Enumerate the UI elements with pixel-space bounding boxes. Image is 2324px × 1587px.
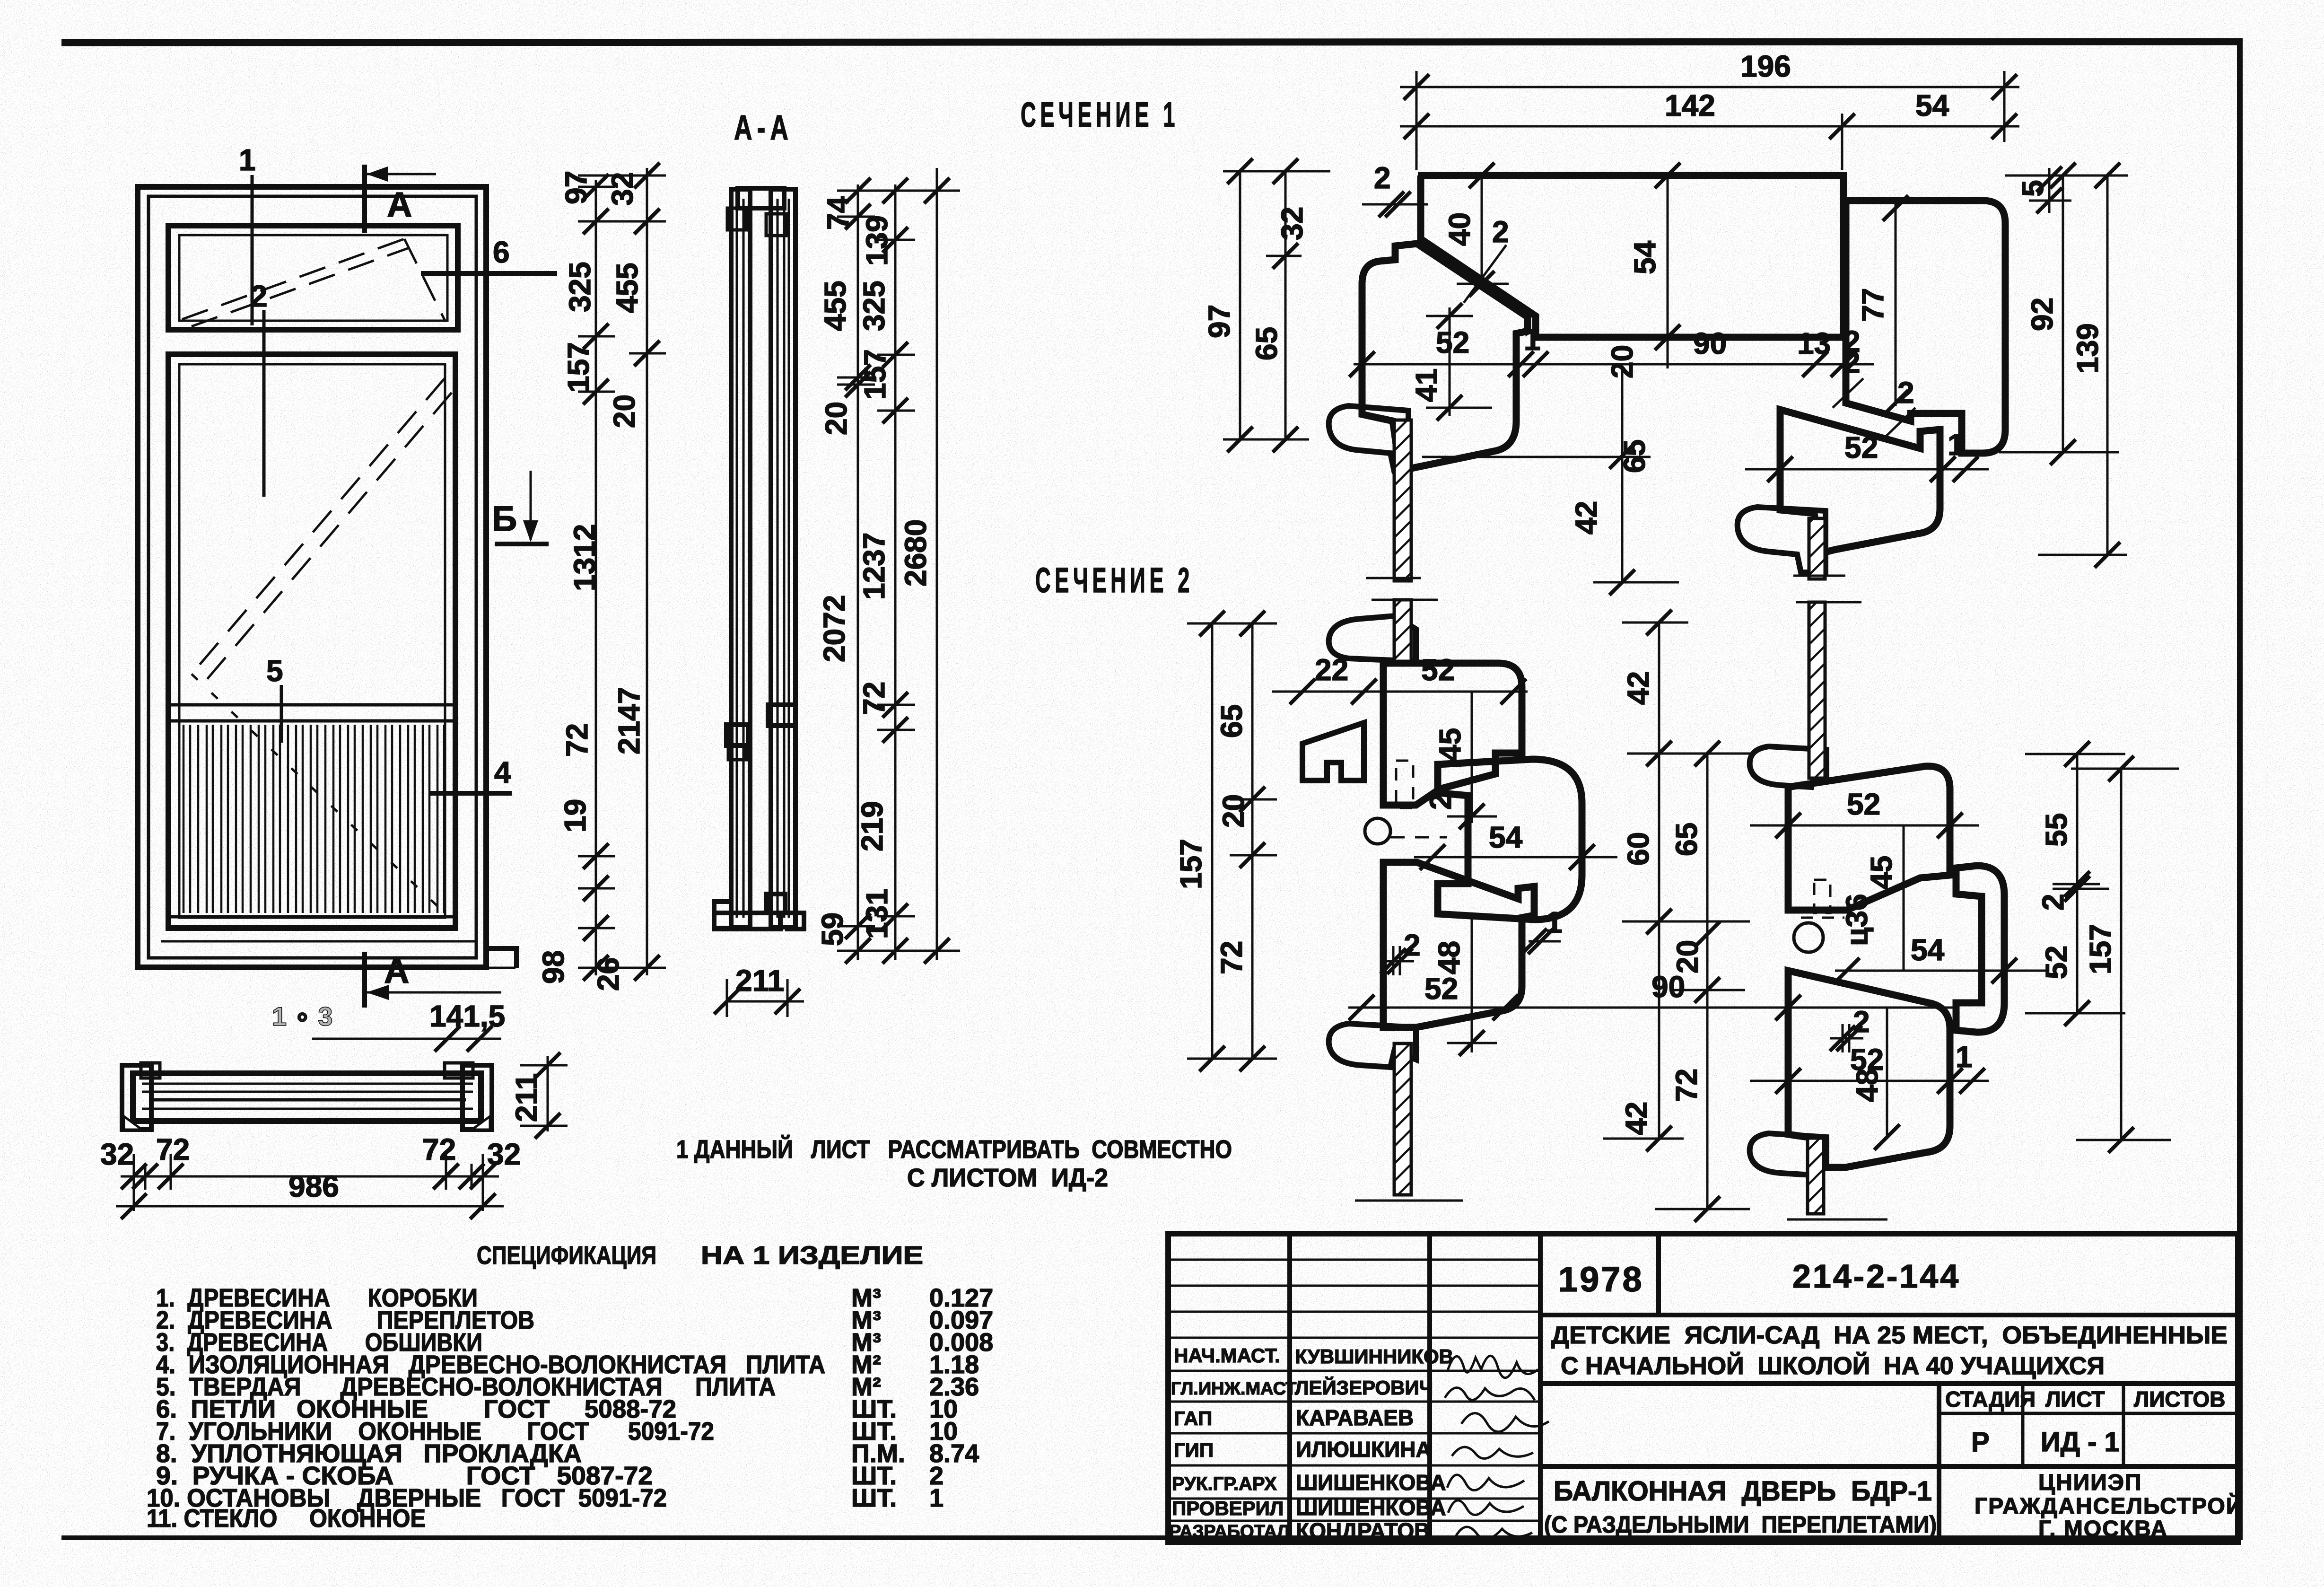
- label 1 leader: [251, 175, 254, 325]
- right bottom glass pane: [1808, 1138, 1824, 1214]
- right top wing: [1750, 746, 1826, 787]
- svg-text:42: 42: [1619, 1102, 1653, 1135]
- stage/sheet header row: [1937, 1384, 1941, 1542]
- svg-text:2: 2: [1374, 161, 1391, 195]
- frame head profile: [1418, 175, 1843, 337]
- svg-text:РАЗРАБОТАЛ: РАЗРАБОТАЛ: [1169, 1522, 1290, 1542]
- svg-text:2: 2: [251, 279, 268, 313]
- dim 139: [2106, 175, 2109, 555]
- svg-text:90: 90: [1651, 970, 1685, 1004]
- right hinge circle: [1794, 923, 1823, 952]
- svg-text:32: 32: [1275, 207, 1309, 240]
- svg-text:48: 48: [1850, 1069, 1884, 1102]
- svg-text:72: 72: [156, 1132, 190, 1166]
- svg-text:2072: 2072: [817, 595, 851, 662]
- svg-text:22: 22: [1315, 653, 1348, 687]
- right group dims: [1750, 824, 1979, 827]
- svg-text:45: 45: [1864, 856, 1898, 889]
- svg-text:42: 42: [1621, 671, 1655, 705]
- top sash profile left: [1362, 244, 1528, 471]
- A-A middle blocks: [726, 725, 748, 745]
- svg-text:72: 72: [857, 682, 891, 715]
- svg-text:92: 92: [2025, 298, 2059, 331]
- transom sash inner: [179, 235, 447, 321]
- sheet bottom border: [61, 1535, 2242, 1540]
- svg-text:13: 13: [1797, 326, 1831, 360]
- left top sash body: [1383, 663, 1522, 805]
- left bottom glass pane: [1394, 1043, 1411, 1195]
- svg-text:ГИП: ГИП: [1174, 1439, 1214, 1461]
- signatures squiggles: [1445, 1356, 1549, 1539]
- svg-text:52: 52: [1847, 787, 1880, 821]
- svg-text:БАЛКОННАЯ ДВЕРЬ БДР-1: БАЛКОННАЯ ДВЕРЬ БДР-1: [1554, 1476, 1932, 1507]
- svg-text:455: 455: [610, 263, 644, 313]
- hinge dashed plate: [1396, 761, 1413, 808]
- svg-text:72: 72: [1214, 941, 1249, 974]
- svg-text:20: 20: [819, 402, 853, 435]
- svg-text:ЛИСТОВ: ЛИСТОВ: [2134, 1387, 2225, 1412]
- svg-text:54: 54: [1489, 820, 1523, 854]
- spec units column: [851, 1284, 993, 1512]
- svg-text:90: 90: [1693, 326, 1727, 360]
- svg-text:Р: Р: [1971, 1427, 1990, 1457]
- svg-text:325: 325: [857, 281, 891, 331]
- right chains 55 2 52 / 157: [2076, 754, 2079, 1013]
- svg-text:СТАДИЯ: СТАДИЯ: [1945, 1387, 2036, 1412]
- svg-text:НАЧ.МАСТ.: НАЧ.МАСТ.: [1174, 1344, 1280, 1367]
- dim 54 vertical: [1667, 175, 1669, 368]
- glass pane (hatched) left: [1394, 420, 1411, 581]
- dim 2 / 48 / 1 bottom left sash: [1381, 960, 1414, 963]
- svg-text:141,5: 141,5: [429, 999, 505, 1033]
- P / ИД-1 row: [1540, 1464, 2238, 1469]
- glass pane continuation into section 2: [1394, 600, 1411, 661]
- svg-text:РУК.ГР.АРХ: РУК.ГР.АРХ: [1172, 1473, 1277, 1494]
- svg-text:219: 219: [855, 801, 889, 851]
- glass / panel division double line: [170, 703, 454, 707]
- svg-text:196: 196: [1740, 49, 1791, 83]
- svg-text:2: 2: [1897, 376, 1914, 410]
- dim 77: [1895, 203, 1897, 406]
- svg-text:ПРОВЕРИЛ: ПРОВЕРИЛ: [1172, 1497, 1284, 1519]
- frame bottom right corner step: [486, 948, 516, 968]
- dim 141,5: [312, 1038, 501, 1040]
- svg-text:ЛЕЙЗЕРОВИЧ: ЛЕЙЗЕРОВИЧ: [1295, 1376, 1433, 1399]
- svg-text:986: 986: [288, 1169, 339, 1203]
- A-A bottom foot: [714, 902, 731, 928]
- dim guide verticals: [1415, 71, 1418, 170]
- left role rows: [1168, 1370, 1540, 1372]
- svg-text:ДЕТСКИЕ ЯСЛИ-САД НА 25 МЕСТ,: ДЕТСКИЕ ЯСЛИ-САД НА 25 МЕСТ, ОБЪЕДИНЕННЫ…: [1551, 1322, 2228, 1349]
- sheet top border: [61, 42, 2243, 43]
- A-A left bar: [731, 189, 750, 927]
- A-A chain 1: [857, 184, 859, 960]
- sash profile right: [1780, 410, 1940, 553]
- dim 54 left: [1414, 856, 1617, 859]
- svg-text:1312: 1312: [568, 524, 602, 591]
- svg-text:А: А: [384, 951, 416, 991]
- section mark A bottom: [362, 952, 367, 1008]
- svg-text:59: 59: [815, 912, 849, 946]
- long line 52 ... 90: [1348, 1007, 1954, 1009]
- svg-text:1: 1: [1546, 905, 1563, 939]
- transom sash outer: [168, 226, 458, 330]
- svg-text:20: 20: [1216, 794, 1250, 828]
- svg-text:1: 1: [1956, 1040, 1973, 1074]
- svg-text:139: 139: [860, 215, 894, 266]
- label 2 leader: [262, 310, 266, 497]
- svg-text:А: А: [387, 185, 419, 224]
- svg-text:65: 65: [1214, 704, 1249, 738]
- dim 92: [2062, 175, 2064, 452]
- svg-text:ИД - 1: ИД - 1: [2041, 1427, 2120, 1457]
- svg-text:72: 72: [422, 1132, 456, 1166]
- label 5 leader: [280, 685, 283, 743]
- glass break marks: [1366, 577, 1421, 579]
- glass pane right: [1809, 518, 1825, 579]
- svg-text:157: 157: [858, 349, 892, 400]
- leaf opening dashes: [192, 378, 445, 674]
- svg-text:2: 2: [1404, 928, 1421, 962]
- svg-text:2: 2: [1843, 345, 1861, 379]
- dim 142 / 54: [1400, 125, 2019, 128]
- svg-text:6: 6: [493, 235, 510, 269]
- svg-text:455: 455: [818, 281, 852, 331]
- dim 65: [1621, 368, 1624, 582]
- svg-text:2680: 2680: [899, 519, 933, 587]
- glass pane into top sash: [1394, 600, 1411, 661]
- transom opening dashes: [182, 239, 404, 319]
- svg-text:54: 54: [1628, 240, 1662, 274]
- svg-text:1978: 1978: [1558, 1260, 1644, 1299]
- dim 41: [1449, 307, 1451, 416]
- door frame inner rectangle: [149, 196, 476, 958]
- spec items: [147, 1284, 825, 1533]
- A-A top cap: [738, 188, 784, 208]
- door leaf inner: [179, 364, 445, 918]
- door frame outer rectangle: [138, 187, 486, 967]
- svg-text:20: 20: [1670, 940, 1704, 973]
- svg-text:ц36: ц36: [1840, 894, 1874, 946]
- svg-text:214-2-144: 214-2-144: [1792, 1258, 1960, 1295]
- A-A chain 3 (2680): [936, 168, 938, 960]
- svg-text:НА 1 ИЗДЕЛИЕ: НА 1 ИЗДЕЛИЕ: [701, 1241, 923, 1270]
- A-A dim 211: [727, 1000, 804, 1003]
- panel hatch: [183, 725, 444, 913]
- shtulp wedge: [1302, 723, 1364, 780]
- svg-text:142: 142: [1665, 88, 1715, 123]
- svg-text:74: 74: [821, 196, 855, 230]
- A-A right bar: [771, 189, 795, 927]
- glass pane into right top sash: [1809, 602, 1825, 778]
- bottom chain line 2 (986): [116, 1205, 504, 1208]
- left top sash wing: [1329, 616, 1416, 661]
- svg-text:ГРАЖДАНСЕЛЬСТРОЙ: ГРАЖДАНСЕЛЬСТРОЙ: [1975, 1493, 2243, 1519]
- dim 40: [1481, 175, 1483, 289]
- frame jamb profile right: [1846, 201, 2005, 453]
- svg-text:325: 325: [563, 262, 597, 312]
- svg-text:2147: 2147: [612, 687, 646, 754]
- svg-text:32: 32: [605, 172, 639, 206]
- label 4 leader: [429, 791, 512, 796]
- svg-text:32: 32: [100, 1137, 134, 1171]
- svg-text:ШИШЕНКОВА: ШИШЕНКОВА: [1296, 1470, 1446, 1495]
- svg-text:97: 97: [559, 171, 593, 204]
- svg-text:ГЛ.ИНЖ.МАСТ: ГЛ.ИНЖ.МАСТ: [1171, 1379, 1296, 1399]
- svg-text:65: 65: [1669, 823, 1704, 856]
- svg-text:52: 52: [2039, 946, 2073, 979]
- svg-text:СЕЧЕНИЕ 2: СЕЧЕНИЕ 2: [1035, 561, 1194, 600]
- dim 45 left: [1471, 692, 1473, 823]
- svg-text:26: 26: [591, 957, 625, 991]
- right frame C profile: [1956, 866, 2004, 1032]
- svg-text:42: 42: [1569, 501, 1603, 535]
- right bottom sash body: [1788, 971, 1950, 1167]
- plan left end block: [122, 1065, 151, 1130]
- svg-text:40: 40: [1442, 212, 1477, 246]
- svg-text:55: 55: [2039, 813, 2073, 847]
- svg-text:60: 60: [1621, 832, 1655, 866]
- svg-text:Г. МОСКВА: Г. МОСКВА: [2038, 1517, 2168, 1542]
- svg-text:А-А: А-А: [734, 108, 793, 147]
- chain tick lines: [578, 175, 666, 177]
- vertical dividers: [1287, 1234, 1292, 1542]
- sheet right border: [2237, 42, 2243, 1540]
- svg-text:КАРАВАЕВ: КАРАВАЕВ: [1296, 1405, 1414, 1430]
- svg-text:54: 54: [1911, 933, 1945, 967]
- svg-text:65: 65: [1249, 327, 1284, 360]
- title block outer: [1168, 1234, 2238, 1542]
- bottom chain line 1: [121, 1175, 499, 1178]
- svg-text:4: 4: [494, 755, 511, 789]
- svg-text:52: 52: [1436, 325, 1469, 359]
- svg-text:139: 139: [2071, 323, 2105, 374]
- svg-text:СПЕЦИФИКАЦИЯ: СПЕЦИФИКАЦИЯ: [477, 1241, 656, 1270]
- svg-text:Б: Б: [492, 499, 524, 538]
- elevation dim chain 2: [646, 168, 648, 975]
- svg-text:2: 2: [2036, 894, 2070, 911]
- left frame C profile: [1438, 759, 1582, 920]
- svg-text:48: 48: [1432, 941, 1466, 974]
- svg-text:45: 45: [1433, 728, 1467, 762]
- svg-text:ГАП: ГАП: [1174, 1407, 1212, 1429]
- svg-text:5: 5: [2016, 180, 2050, 197]
- svg-text:(С РАЗДЕЛЬНЫМИ ПЕРЕПЛЕТАМИ): (С РАЗДЕЛЬНЫМИ ПЕРЕПЛЕТАМИ): [1544, 1511, 1937, 1538]
- svg-text:157: 157: [1174, 839, 1208, 889]
- svg-text:157: 157: [561, 342, 595, 393]
- svg-text:2: 2: [1492, 215, 1509, 249]
- dim 22 / 52 top left: [1272, 691, 1528, 693]
- dim 2 top left: [1362, 203, 1428, 206]
- svg-text:ШТ.: ШТ.: [851, 1484, 897, 1512]
- svg-text:ЛИСТ: ЛИСТ: [2045, 1387, 2105, 1412]
- glass bead wing right: [1738, 507, 1826, 572]
- svg-text:52: 52: [1844, 430, 1878, 465]
- leaf bottom rail lines: [170, 915, 454, 919]
- middle chains 42 60 / 65 20 72 42: [1658, 623, 1660, 1139]
- svg-text:1: 1: [929, 1484, 944, 1512]
- dim 5: [2048, 168, 2051, 213]
- svg-text:ЦНИИЭП: ЦНИИЭП: [2038, 1470, 2142, 1495]
- svg-text:98: 98: [536, 950, 570, 984]
- label 6 leader: [421, 271, 557, 276]
- section mark B top: [495, 542, 549, 546]
- svg-text:КОНДРАТОВ: КОНДРАТОВ: [1296, 1518, 1430, 1543]
- svg-text:1: 1: [1524, 323, 1541, 357]
- svg-text:ИЛЮШКИНА: ИЛЮШКИНА: [1296, 1437, 1432, 1462]
- dim 42: [1593, 581, 1679, 584]
- svg-text:1 ДАННЫЙ ЛИСТ РАССМАТРИВАТ: 1 ДАННЫЙ ЛИСТ РАССМАТРИВАТЬ СОВМЕСТНО: [676, 1135, 1232, 1164]
- svg-text:С ЛИСТОМ ИД-2: С ЛИСТОМ ИД-2: [907, 1164, 1108, 1192]
- leader 2 diagonal: [1464, 245, 1506, 303]
- svg-text:1: 1: [239, 143, 256, 177]
- glass bead wing left: [1329, 406, 1408, 471]
- top band rows (left columns): [1168, 1259, 1540, 1261]
- svg-text:19: 19: [558, 799, 592, 833]
- plan outer band: [133, 1073, 481, 1121]
- left chains 157 / 65 20 72: [1211, 623, 1214, 1059]
- svg-text:77: 77: [1856, 288, 1890, 322]
- svg-text:1237: 1237: [857, 533, 891, 600]
- svg-text:2: 2: [1853, 1005, 1870, 1039]
- svg-text:11. СТЕКЛО ОКОННОЕ: 11. СТЕКЛО ОКОННОЕ: [147, 1504, 426, 1533]
- door leaf outer: [168, 354, 455, 928]
- svg-text:52: 52: [1424, 972, 1458, 1006]
- hinge circle: [1365, 818, 1390, 844]
- svg-text:72: 72: [560, 723, 594, 757]
- elevation dim chain 1: [595, 180, 597, 975]
- svg-text:СЕЧЕНИЕ 1: СЕЧЕНИЕ 1: [1021, 95, 1179, 134]
- svg-text:54: 54: [1915, 88, 1949, 123]
- 1978 / 214-2-144 row bottom: [1540, 1313, 2238, 1317]
- svg-text:131: 131: [860, 888, 894, 939]
- svg-text:КУВШИННИКОВ: КУВШИННИКОВ: [1295, 1345, 1453, 1368]
- dim 196: [1400, 86, 2019, 88]
- dim 211 plan right: [547, 1056, 549, 1131]
- svg-text:52: 52: [1421, 653, 1455, 687]
- svg-text:32: 32: [487, 1137, 521, 1171]
- svg-text:72: 72: [1669, 1069, 1704, 1102]
- svg-text:41: 41: [1409, 368, 1443, 402]
- svg-text:97: 97: [1202, 305, 1236, 338]
- right top sash body: [1788, 766, 1950, 910]
- right bottom wing: [1750, 1133, 1826, 1175]
- left bottom sash body: [1383, 862, 1534, 1027]
- svg-text:С НАЧАЛЬНОЙ ШКОЛОЙ НА 40 УЧА: С НАЧАЛЬНОЙ ШКОЛОЙ НА 40 УЧАЩИХСЯ: [1561, 1352, 2105, 1380]
- svg-text:5: 5: [266, 654, 283, 688]
- svg-text:65: 65: [1617, 439, 1651, 473]
- plan right end block: [463, 1065, 492, 1130]
- dim line 52 / 1 / 90 / 13 / 2: [1354, 363, 1874, 366]
- svg-text:211: 211: [509, 1073, 543, 1122]
- dim 52 / 1 right sash: [1745, 468, 1989, 471]
- svg-text:ШИШЕНКОВА: ШИШЕНКОВА: [1296, 1495, 1446, 1520]
- plan inner lines: [142, 1083, 473, 1085]
- A-A chain 2: [894, 184, 897, 960]
- section mark A top: [362, 165, 367, 233]
- svg-text:20: 20: [607, 395, 641, 428]
- svg-text:157: 157: [2083, 924, 2117, 974]
- section1 left chains 97 / 32 / 65: [1239, 171, 1241, 439]
- svg-text:211: 211: [735, 964, 784, 998]
- svg-text:1 ∘ 3: 1 ∘ 3: [272, 1001, 332, 1031]
- svg-text:1: 1: [1948, 428, 1965, 462]
- svg-text:2: 2: [1424, 793, 1458, 810]
- left bottom wing: [1329, 1024, 1416, 1067]
